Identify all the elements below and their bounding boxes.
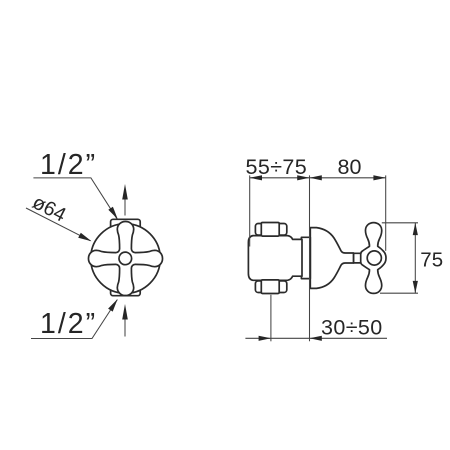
side view: stem between bell and handle [354,253,362,263]
svg-text:75: 75 [420,248,443,271]
svg-text:80: 80 [338,155,362,179]
extension line: wall plane (center) [309,175,311,341]
dimension line: 55÷75 and 80 [250,177,386,179]
front view: hub circle [119,252,132,265]
flow arrow line: bottom [124,319,126,337]
side view: handle silhouette [361,223,386,294]
dimension line: 30÷50 [245,337,387,339]
flow arrow head: top [122,184,128,200]
flow arrow line: top [124,199,126,216]
arrowhead: 55÷75 left (points left) [250,175,262,180]
front view: cross handle [88,221,162,295]
arrowhead: bottom 1/2 leader [108,299,118,312]
arrowhead: 80 right (points right) [373,175,385,180]
side view: bottom hex nut centre face [261,280,279,294]
front view: bottom outlet rect [111,285,141,296]
side view: wall flange plate [301,237,310,278]
side view: bell escutcheon [310,228,353,289]
front view: top inlet rect [111,219,141,231]
arrowhead: top 1/2 leader [108,207,118,220]
leader line: bottom 1/2 inch label [31,300,117,339]
svg-text:ø64: ø64 [29,191,70,226]
side view: top hex nut centre face [261,223,279,237]
extension line: handle bottom [380,292,418,294]
arrowhead: 80 left (points left) [310,175,322,180]
arrowhead: 75 bottom (points down) [413,281,418,293]
extension line: pipe axis below body [270,295,272,342]
arrowhead: 75 top (points up) [413,223,418,235]
solid arrowheads [78,175,418,341]
arrowhead: ø64 leader [78,233,91,242]
svg-text:30÷50: 30÷50 [321,316,383,340]
arrowhead: 55÷75 right (points right) [297,175,309,180]
flow arrow head: bottom [122,304,128,320]
extension line: handle top [382,222,418,224]
leader line: ø64 label [26,208,91,241]
svg-text:55÷75: 55÷75 [246,155,308,179]
dimension line: 75 (vertical) [414,223,416,293]
svg-text:1/2”: 1/2” [40,308,97,340]
svg-text:1/2”: 1/2” [40,149,97,181]
extension line: body left face [249,175,251,246]
front view: escutcheon circle [91,224,161,294]
arrowhead: 30÷50 right outside (points left) [310,336,322,341]
side view: top hex nut side faces [255,224,286,236]
thin dimension / leader line work [26,175,418,341]
side view: bottom hex nut side faces [255,281,286,293]
extension line: handle right face [385,175,387,250]
side view: handle hub circle [367,251,381,265]
side view: valve body [248,236,302,281]
arrowhead: 30÷50 left outside (points right) [259,336,271,341]
leader line: top 1/2 inch label [33,178,117,219]
dimension texts [29,149,443,340]
